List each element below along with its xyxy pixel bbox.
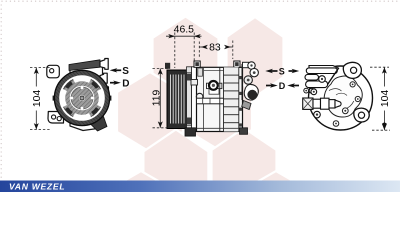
left view: D arrow and label: [110, 78, 130, 89]
middle view: bottom left foot: [185, 128, 196, 136]
left view: pulley side tabs: [53, 96, 57, 101]
left view: compressor body behind pulley: [70, 62, 103, 131]
svg-text:S: S: [279, 66, 285, 76]
right view: port finger 3: [306, 81, 328, 88]
middle view: ribbed pulley: [167, 70, 187, 129]
middle view: angled tab: [242, 101, 251, 110]
hex H1: [153, 17, 219, 104]
middle view: ladder right nubs: [239, 76, 242, 127]
dimension 83: [199, 41, 233, 60]
middle view: bottom right foot: [240, 128, 248, 135]
hex H2: [227, 17, 284, 97]
middle/right S label with arrows: [265, 66, 299, 76]
left view: pulley outer hatched ring: [54, 70, 109, 125]
middle view: main body: [197, 67, 243, 131]
dimension 104 left: [30, 68, 50, 130]
right view: valve cylinder steps: [313, 99, 321, 108]
middle view: fitting circle 3: [244, 76, 252, 84]
right view: port finger 1: [306, 68, 337, 74]
right view: main circle: [309, 66, 373, 130]
hex H4: [186, 70, 252, 150]
middle view: top mount lug right: [234, 61, 240, 67]
right view: valve hatched block: [303, 98, 313, 109]
hex H7 corner tip: [108, 171, 174, 240]
svg-text:46.5: 46.5: [174, 24, 194, 35]
svg-text:83: 83: [209, 43, 221, 54]
middle view: cylinder ladder: [224, 67, 239, 131]
middle view: left bolt: [191, 80, 198, 86]
svg-text:D: D: [279, 81, 286, 91]
left view: top slanted band of body: [69, 60, 100, 71]
middle view: fitting circle 1: [248, 62, 255, 69]
svg-text:S: S: [122, 66, 129, 77]
dotted page border: [1, 1, 398, 178]
hex H3: [117, 72, 183, 152]
left view: discharge stub D: [100, 73, 107, 83]
svg-text:D: D: [122, 78, 129, 89]
dimension 119: [153, 68, 169, 127]
right view: bolt above valve: [311, 89, 317, 95]
bottom banner with logo: [0, 181, 400, 193]
hex H5: [143, 130, 208, 219]
right view: port block: [309, 66, 339, 88]
left view: hub rings: [70, 86, 95, 111]
left view: suction stub S: [100, 59, 108, 70]
left view: bottom right foot: [89, 117, 107, 132]
middle view: fitting circle 2: [250, 68, 258, 76]
left view: clutch white arc slots: [63, 79, 102, 118]
svg-text:104: 104: [380, 90, 391, 108]
right view: top ear with hole: [343, 62, 361, 78]
left view: side tab on body: [103, 87, 109, 93]
left view: clutch dark arc marks: [67, 83, 98, 114]
right view: casting bolts: [333, 121, 339, 127]
left view: bottom-left ear with two holes: [48, 112, 64, 124]
left view: top-left ear with hole: [47, 65, 60, 78]
middle/right D label with arrows: [266, 81, 299, 91]
svg-text:VAN WEZEL: VAN WEZEL: [9, 182, 65, 192]
hex H8 corner tip: [243, 171, 309, 240]
right view: block foot bolts: [304, 88, 309, 93]
middle view: small stub top-left of pulley: [165, 63, 170, 69]
middle view: sight glass with tabs: [207, 83, 222, 88]
right view: bottom-right ear with hole: [354, 108, 369, 122]
svg-text:104: 104: [32, 90, 43, 108]
right view: block bolt: [319, 76, 326, 83]
middle view: mounting rail: [197, 98, 225, 104]
middle view: clutch plate: [187, 73, 192, 125]
left view: pulley friction ring: [61, 77, 102, 118]
middle view: teardrop hook: [244, 84, 258, 100]
right view: block diagonal edge: [328, 68, 339, 85]
left view: S arrow and label: [110, 66, 130, 77]
right view: bolt below valve: [314, 111, 321, 118]
right view: port finger 2: [305, 74, 319, 80]
middle view: top mount lug left: [194, 61, 200, 67]
watermark hexagon pattern: [108, 17, 309, 240]
middle view: ring bolt: [196, 93, 203, 100]
right view: inner casting contour: [324, 76, 362, 117]
hex H6: [212, 128, 277, 217]
dimension 46.5: [166, 33, 202, 69]
dimension 104 right: [370, 67, 390, 130]
middle view: fittings connector line: [241, 64, 243, 100]
svg-text:119: 119: [151, 90, 162, 107]
